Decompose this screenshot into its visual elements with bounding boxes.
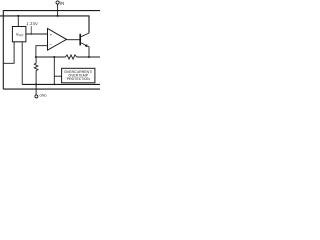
label IN bbox=[60, 2, 63, 5]
label VREF bbox=[16, 33, 24, 36]
wire: sense tap from output rail down to GND rail bbox=[53, 57, 55, 84]
wire: branch into protection block bbox=[54, 75, 61, 77]
node dot: emitter on output rail bbox=[88, 56, 90, 58]
wire lead2: VREF ground lead down bbox=[21, 42, 23, 85]
wire: output rail left part bbox=[36, 56, 66, 58]
resistor box U2 VREF bandgap reference bbox=[12, 27, 26, 42]
wire: op-amp - input from feedback node bbox=[36, 46, 48, 57]
wire: 1.23V label leader bbox=[30, 26, 32, 33]
node dot: base junction bbox=[79, 39, 81, 41]
wire: output rail right part bbox=[77, 56, 100, 58]
node dot: feedback node on output rail bbox=[35, 56, 37, 58]
node dot: IN wire on rail B bbox=[57, 15, 59, 17]
transistor Q1 collector bbox=[81, 33, 89, 37]
wire: GND pin lead bbox=[35, 84, 37, 95]
wire rail A: regulator box top edge bbox=[3, 10, 100, 12]
node dot: ground node on GND rail bbox=[35, 83, 37, 85]
resistor RSC current sense zigzag bbox=[66, 55, 77, 59]
transistor Q1 base bar bbox=[79, 34, 81, 46]
label 1.23V bbox=[27, 22, 38, 25]
terminal GND circle bbox=[35, 95, 38, 98]
op-amp U1 error amplifier bbox=[48, 29, 67, 51]
wire: GND rail L2 bbox=[22, 83, 100, 85]
label op-amp plus bbox=[50, 34, 52, 36]
node dot: sense tap on output rail bbox=[53, 56, 55, 58]
label protection line3 PROTECTION bbox=[67, 78, 89, 80]
node dot: 1.23V leader on + wire bbox=[30, 33, 32, 35]
node dot: sense wire on GND rail bbox=[53, 84, 55, 86]
transistor Q1 emitter bbox=[81, 43, 89, 57]
label GND bbox=[40, 94, 47, 96]
wire rail B: internal V+ rail to collector bbox=[0, 16, 89, 33]
resistor box U3 overcurrent overtemp protection bbox=[62, 68, 95, 83]
label op-amp minus bbox=[49, 43, 51, 45]
label protection line2 OVERTEMP bbox=[69, 74, 88, 76]
wire: regulator box bottom edge bbox=[3, 88, 100, 90]
label protection line1 OVERCURRENT/ bbox=[64, 70, 92, 73]
wire: IN pin lead bbox=[57, 4, 59, 16]
resistor R2 feedback zigzag bbox=[34, 57, 38, 84]
wire: regulator box left edge bbox=[2, 10, 4, 89]
wire: VREF supply tap bbox=[17, 16, 19, 27]
wire: op-amp output to base bbox=[67, 39, 81, 41]
emitter arrowhead Q1 bbox=[85, 44, 88, 47]
terminal IN circle bbox=[56, 1, 59, 4]
node dot: VREF tap on rail B bbox=[17, 15, 19, 17]
wire lead1: VREF left lead down and out to left edge bbox=[3, 42, 14, 64]
wire: 1.23V reference to op-amp + input bbox=[26, 33, 48, 35]
